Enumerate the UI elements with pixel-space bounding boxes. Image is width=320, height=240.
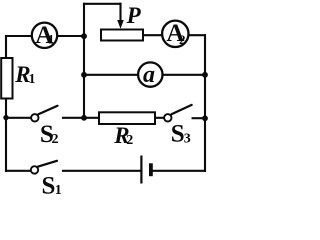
wire right vertical (A2 down to bottom-right corner) xyxy=(204,35,206,171)
svg-text:P: P xyxy=(126,3,142,28)
battery long plate (positive) xyxy=(140,156,142,184)
node junction at R2 row and middle bus xyxy=(81,115,87,121)
wire S3 right stub xyxy=(193,117,205,119)
galvanometer a xyxy=(138,62,162,88)
ammeter A1 xyxy=(32,22,57,49)
wire top row A1 (left corner through A1 to node) xyxy=(6,35,84,37)
svg-text:1: 1 xyxy=(55,183,62,195)
node junction at galvanometer row and middle bus xyxy=(81,72,87,78)
svg-text:1: 1 xyxy=(48,32,55,47)
node junction right bus and galvanometer row xyxy=(202,72,208,78)
label R2 xyxy=(113,123,133,148)
ammeter A2 xyxy=(162,20,188,47)
wire P right to A2 and right corner xyxy=(143,34,205,36)
svg-text:S: S xyxy=(171,120,185,147)
potentiometer P body xyxy=(101,30,143,41)
switch S1 pivot xyxy=(31,166,38,173)
svg-text:2: 2 xyxy=(126,133,133,148)
node junction right bus and S3 row xyxy=(202,115,208,121)
wire S2 row left stub xyxy=(6,117,30,119)
battery short plate (negative) xyxy=(149,163,153,176)
switch S2 pivot xyxy=(31,114,38,121)
wire S1 to battery xyxy=(63,170,140,172)
wire bottom left stub to S1 xyxy=(6,170,30,172)
wire battery to bottom-right corner xyxy=(153,170,205,172)
switch S1 blade xyxy=(38,161,57,167)
switch S2 blade xyxy=(38,106,57,115)
resistor R2 body xyxy=(99,112,155,124)
svg-text:S: S xyxy=(42,172,56,195)
svg-text:3: 3 xyxy=(184,131,191,146)
svg-text:2: 2 xyxy=(52,132,59,147)
wire middle vertical bus xyxy=(83,4,85,118)
wire S2 to R2 to S3 xyxy=(63,117,163,119)
svg-text:a: a xyxy=(143,62,155,88)
switch S3 blade xyxy=(171,105,191,114)
node junction at A1 row and middle bus xyxy=(81,33,87,39)
resistor R1 body xyxy=(1,58,12,99)
node junction left bus and S2 row xyxy=(3,115,8,120)
wire P wiper arrow shaft xyxy=(119,4,121,21)
switch S3 pivot xyxy=(164,114,171,121)
label S2 xyxy=(40,121,59,148)
label S3 xyxy=(171,120,191,147)
wire left vertical (A1 corner down to bottom-left corner) xyxy=(5,36,7,171)
label S1 xyxy=(42,172,62,199)
arrowhead of potentiometer wiper P xyxy=(117,20,124,29)
label R1 xyxy=(14,62,35,87)
wire galvanometer row (node to right bus) xyxy=(84,74,205,76)
wire top bypass to P arrow xyxy=(84,3,121,5)
svg-text:2: 2 xyxy=(179,32,186,47)
svg-text:1: 1 xyxy=(29,72,36,87)
